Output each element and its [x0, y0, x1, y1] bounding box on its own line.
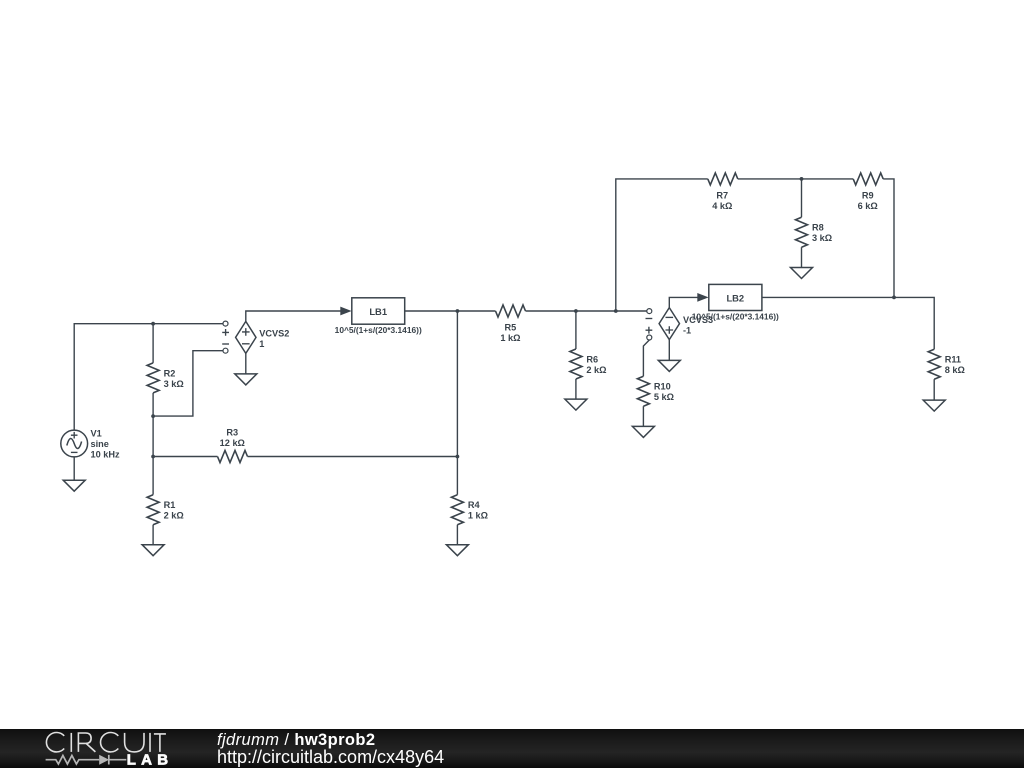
- resistor R10: [637, 376, 649, 406]
- junction dots: [151, 322, 155, 326]
- svg-text:LB1: LB1: [369, 306, 387, 317]
- resistor R7: [708, 173, 738, 185]
- svg-text:R11: R11: [945, 355, 961, 365]
- svg-text:R2: R2: [164, 368, 176, 378]
- wire: [152, 525, 154, 545]
- VCVS2 control polarity marks: [222, 329, 229, 336]
- wire: [153, 351, 223, 416]
- wire: [456, 525, 458, 545]
- wire: [883, 179, 894, 298]
- ground (R11): [923, 400, 945, 411]
- wire: [801, 247, 803, 267]
- arrow into LB1: [340, 307, 351, 316]
- svg-text:R10: R10: [654, 382, 671, 392]
- wire: [933, 379, 935, 400]
- node: VCVS3 control - terminal: [647, 309, 652, 314]
- wire (feedback loop up): [616, 179, 708, 311]
- resistor R5: [496, 305, 526, 317]
- ground (R10): [632, 426, 654, 437]
- svg-text:12 kΩ: 12 kΩ: [220, 438, 245, 448]
- wire: [73, 457, 75, 480]
- wire: [738, 178, 853, 180]
- svg-text:8 kΩ: 8 kΩ: [945, 365, 965, 375]
- ground (V1): [63, 480, 85, 491]
- svg-text:3 kΩ: 3 kΩ: [812, 233, 832, 243]
- resistor R11: [928, 349, 940, 379]
- arrow into LB2: [697, 293, 708, 302]
- wire: [575, 311, 577, 349]
- svg-text:R1: R1: [164, 500, 176, 510]
- svg-text:10^5/(1+s/(20*3.1416)): 10^5/(1+s/(20*3.1416)): [692, 312, 779, 322]
- wire: [74, 324, 223, 431]
- Laplace block LB1: [352, 298, 405, 324]
- wire: [762, 297, 934, 349]
- wire: [152, 416, 154, 495]
- svg-text:R4: R4: [468, 500, 481, 510]
- svg-text:2 kΩ: 2 kΩ: [164, 511, 184, 521]
- svg-text:R6: R6: [586, 355, 598, 365]
- svg-text:R5: R5: [505, 322, 517, 332]
- CircuitLab logo: [0, 729, 200, 769]
- resistor R4: [451, 495, 463, 525]
- ground (R1): [142, 545, 164, 556]
- wire: [152, 393, 154, 416]
- svg-text:3 kΩ: 3 kΩ: [164, 379, 184, 389]
- ground (R8): [791, 268, 813, 279]
- resistor R1: [147, 495, 159, 525]
- svg-text:6 kΩ: 6 kΩ: [858, 201, 878, 211]
- svg-text:1 kΩ: 1 kΩ: [468, 511, 488, 521]
- svg-text:VCVS2: VCVS2: [259, 329, 289, 339]
- svg-text:4 kΩ: 4 kΩ: [712, 201, 732, 211]
- ground (VCVS2): [235, 374, 257, 385]
- wire: [405, 310, 496, 312]
- node: VCVS3 control + terminal: [647, 335, 652, 340]
- dependent source VCVS3: [659, 297, 698, 360]
- wire: [152, 324, 154, 363]
- resistor R3: [153, 456, 217, 458]
- svg-text:10 kHz: 10 kHz: [91, 449, 121, 459]
- wire: [526, 310, 647, 312]
- VCVS3 control polarity marks: [646, 318, 653, 320]
- node: VCVS2 control + terminal: [223, 321, 228, 326]
- resistor R9: [853, 173, 883, 185]
- svg-text:V1: V1: [91, 428, 102, 438]
- wire: [801, 179, 803, 217]
- svg-text:R9: R9: [862, 190, 874, 200]
- svg-text:R3: R3: [226, 428, 238, 438]
- resistor R2: [147, 363, 159, 393]
- svg-text:1 kΩ: 1 kΩ: [500, 333, 520, 343]
- resistor R8: [796, 217, 808, 247]
- svg-text:R8: R8: [812, 223, 824, 233]
- svg-text:R7: R7: [716, 190, 728, 200]
- svg-text:sine: sine: [91, 439, 109, 449]
- ground (R4): [446, 545, 468, 556]
- resistor R6: [570, 349, 582, 379]
- wire (VCVS3 + to R10): [643, 340, 649, 376]
- svg-text:1: 1: [259, 339, 264, 349]
- svg-text:2 kΩ: 2 kΩ: [586, 365, 606, 375]
- ground (VCVS3): [658, 360, 680, 371]
- wire: [575, 379, 577, 399]
- svg-text:10^5/(1+s/(20*3.1416)): 10^5/(1+s/(20*3.1416)): [335, 325, 422, 335]
- Laplace block LB2: [709, 284, 762, 310]
- wire: [456, 311, 458, 495]
- ground (R6): [565, 399, 587, 410]
- bottom info bar: [0, 729, 1024, 768]
- voltage source V1: [61, 430, 88, 457]
- node: VCVS2 control - terminal: [223, 348, 228, 353]
- svg-text:LAB: LAB: [127, 752, 173, 769]
- wire: [642, 406, 644, 426]
- svg-text:LB2: LB2: [726, 293, 744, 304]
- dependent source VCVS2: [236, 311, 341, 374]
- svg-text:-1: -1: [683, 325, 691, 335]
- svg-text:5 kΩ: 5 kΩ: [654, 392, 674, 402]
